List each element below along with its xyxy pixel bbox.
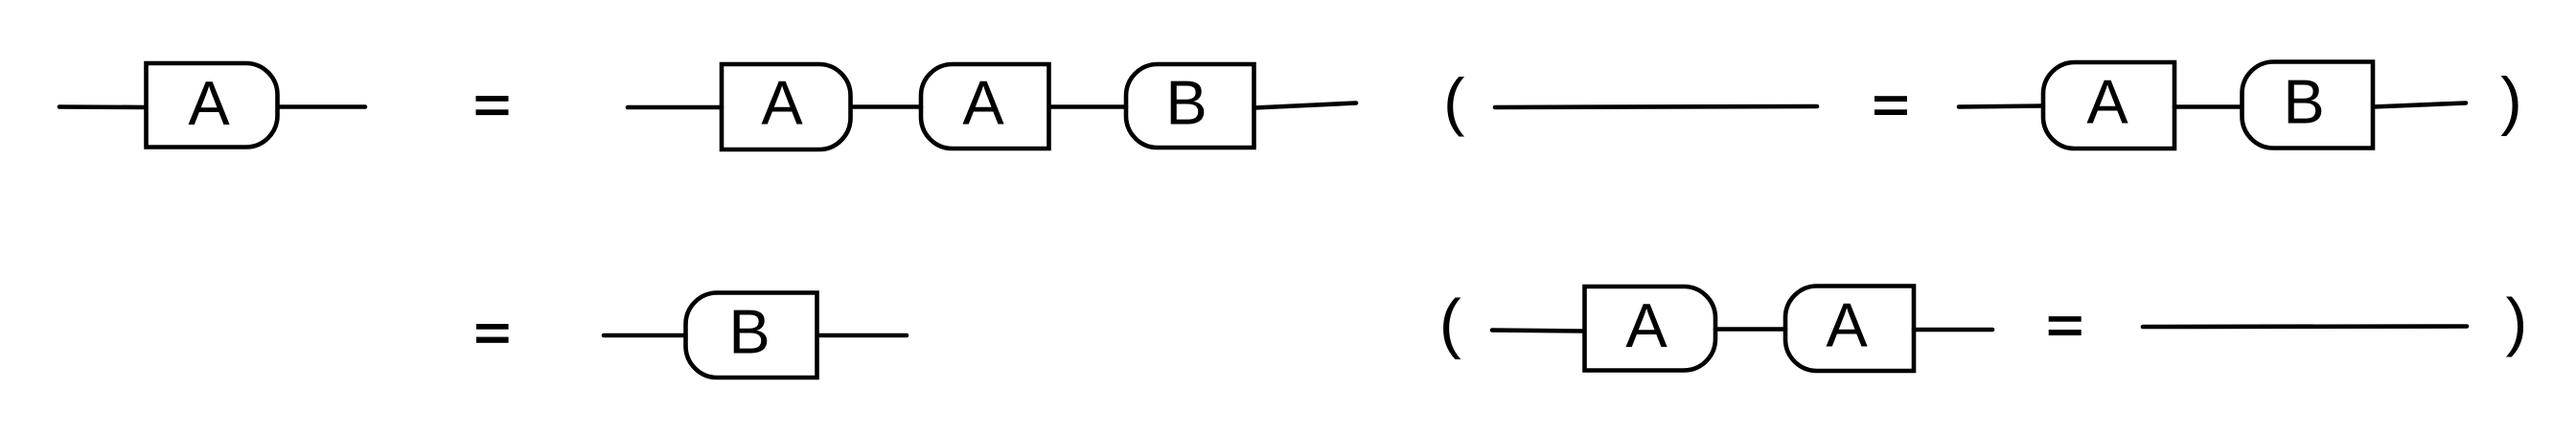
wire output of B (row 1 RHS, sloped) [1254,103,1356,108]
box A (row 2 condition first, right-rounded) [1585,287,1716,371]
svg-text:): ) [2506,286,2528,358]
svg-text:B: B [2283,67,2324,137]
wire between A and B (row 1 condition) [2174,104,2242,109]
svg-text:A: A [188,68,230,138]
svg-text:A: A [962,67,1004,137]
wire between A and A (row 2 condition) [1715,327,1785,332]
wire input to first A (row 1 RHS) [628,105,722,110]
svg-text:A: A [761,67,803,137]
wire input to first A (row 2 condition) [1492,331,1584,332]
svg-text:A: A [1625,290,1667,360]
wire between A and B (row 1 RHS) [1049,104,1126,109]
equals sign (row 1 condition) [1874,96,1907,102]
box B (row 1 RHS, left-rounded) [1126,64,1254,148]
box A (row 1 condition, left-rounded) [2043,62,2174,149]
equals sign (row 2 left) [476,324,509,330]
svg-text:(: ( [1443,65,1464,137]
equals sign (row 2 condition) [2049,316,2081,322]
wire output of B (row 2) [817,333,907,338]
box A (row 1 RHS second, left-rounded) [921,64,1049,149]
box B (row 1 condition, left-rounded) [2242,62,2374,149]
svg-text:): ) [2500,64,2522,137]
svg-text:A: A [2086,67,2128,137]
svg-text:A: A [1826,290,1868,360]
wire output of A (LHS) [278,104,365,109]
wire input to A (row 1 condition RHS) [1959,106,2043,107]
svg-text:(: ( [1439,286,1461,359]
wire output of second A (row 2 condition) [1914,328,1992,333]
box A (row 2 condition second, left-rounded) [1785,287,1914,372]
svg-text:B: B [1165,67,1207,137]
plain wire (row 2 condition RHS) [2143,324,2467,329]
equals sign (row 1 left) [476,96,509,102]
wire between A and A (row 1 RHS) [851,104,921,109]
plain wire (row 1 condition LHS) [1495,106,1817,107]
wire input to A (LHS) [59,104,147,109]
wire input to B (row 2) [604,333,685,338]
box A (LHS, right-rounded) [147,63,278,148]
svg-text:B: B [728,297,770,367]
wire output of B (row 1 condition, sloped) [2373,103,2466,107]
box B (row 2, left-rounded) [686,293,817,379]
box A (row 1 RHS first, right-rounded) [722,64,851,149]
